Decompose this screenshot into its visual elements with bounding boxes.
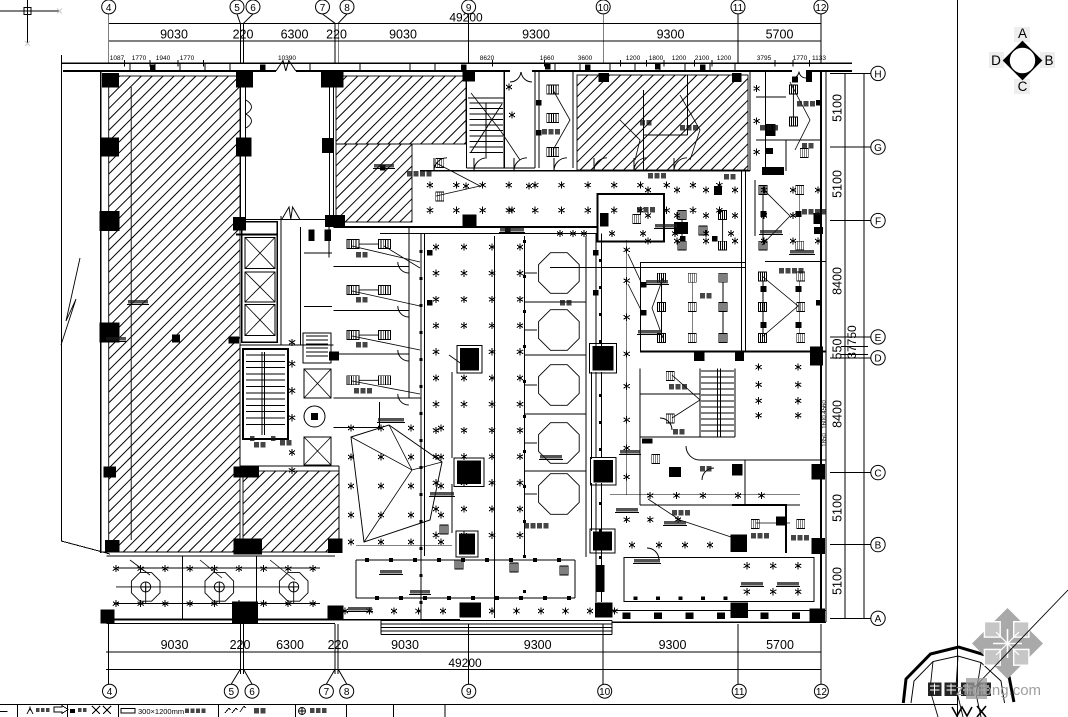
stairwell S2 enclosure (243, 349, 288, 439)
hall mid vertical line x494.5 (494, 236, 496, 618)
small fixture corridor south (652, 455, 660, 464)
lobby wall above elevators (236, 233, 276, 235)
column 15 (99, 323, 119, 343)
leader 8 bottom (338, 669, 347, 684)
column 14 (233, 217, 246, 231)
column 2 (236, 72, 253, 88)
column 5 (321, 72, 344, 88)
octagon connector 3 (525, 384, 538, 386)
column 20 (233, 466, 259, 477)
bar room right wall (741, 171, 743, 352)
legend text socket (310, 708, 315, 713)
column 48 (814, 227, 823, 234)
column 40 (694, 351, 704, 361)
column 1 (102, 73, 119, 88)
wall at grid5-6 left of top room (240, 71, 242, 219)
octagon connector 1 (525, 272, 538, 274)
ballroom interior wall x687 (687, 75, 689, 135)
stars bottom right hall (744, 562, 750, 569)
leader 8 top (338, 14, 347, 23)
svg-text:5100: 5100 (831, 494, 845, 522)
column 36 (811, 538, 825, 554)
top right rooms wall x750 (749, 71, 751, 171)
left exterior wall (100, 71, 102, 553)
star grid right open area (645, 186, 651, 193)
svg-text:9030: 9030 (161, 638, 189, 652)
box LC 1 (309, 230, 315, 241)
svg-text:49200: 49200 (448, 656, 482, 670)
column 11 (325, 215, 345, 227)
svg-text:C: C (1018, 79, 1028, 94)
column 16 (172, 334, 180, 342)
bottom exterior wall right part (612, 621, 826, 623)
svg-text:8400: 8400 (831, 267, 845, 295)
octagon strip divider y355 (525, 354, 587, 356)
svg-text:5700: 5700 (766, 638, 794, 652)
stage zone lines bottom hall (356, 559, 575, 561)
stars right stair rooms (756, 364, 762, 371)
grid bubble E (871, 330, 885, 344)
dark box corridor (714, 186, 722, 195)
column 39 (732, 464, 742, 476)
fixtures corridor room top (547, 85, 559, 94)
black bar near corridor south (642, 439, 653, 444)
hall right corridor walls (595, 234, 597, 603)
stair S3 right treads (701, 370, 734, 372)
left block wall x300 (300, 227, 302, 345)
octagon connector 4 (525, 442, 538, 444)
lobby side wall x329 (328, 222, 330, 258)
irregular light zone polygon (351, 425, 442, 542)
circuit labels (374, 164, 394, 167)
column 25 (232, 602, 258, 624)
column 27 (459, 602, 481, 617)
octagon table 2 (539, 310, 580, 351)
sub-dim ticks top wall (123, 60, 125, 67)
interior wall y267 long line (550, 266, 745, 268)
leader 5 top (237, 14, 240, 23)
ballroom interior wall y135 (643, 134, 687, 136)
column 19 (103, 466, 116, 477)
svg-text:5100: 5100 (831, 170, 845, 198)
compass circle (1009, 47, 1035, 73)
svg-text:7: 7 (320, 3, 326, 14)
svg-text:8: 8 (344, 687, 350, 698)
compass diamond (1004, 42, 1042, 80)
grid bubble 7 top (316, 0, 330, 14)
octagon table 5 (539, 474, 580, 515)
bottom-left room dividers (181, 556, 183, 620)
right rooms vertical connectors (762, 194, 764, 241)
fixture pair connector lines (359, 243, 379, 245)
grid bubble 6 top (246, 0, 260, 14)
svg-text:1940: 1940 (156, 55, 171, 62)
stage line ticks (365, 558, 369, 562)
octagon strip divider y302 (525, 301, 587, 303)
grid bubble 6 bottom (245, 684, 259, 698)
svg-text:9: 9 (466, 3, 472, 14)
legend tiny text 2 (78, 708, 82, 712)
shaft circle dot (311, 413, 318, 420)
octagon table 1 (539, 253, 580, 294)
watermark octagon inner octagon (911, 656, 1005, 703)
svg-text:B: B (875, 541, 882, 552)
stars row above hall (629, 541, 635, 548)
floor octagon 2 (205, 573, 234, 602)
door arcs lower right block (686, 446, 700, 460)
overall dim line 49200 top (109, 22, 821, 24)
legend tiny text 1 (36, 708, 40, 712)
double door top wall right (792, 72, 799, 78)
white room right wall (grid7-8) (333, 71, 335, 227)
column 31 (460, 348, 479, 371)
svg-text:9300: 9300 (657, 28, 685, 42)
elevator 5 (304, 437, 331, 465)
elevator 4 (304, 369, 331, 398)
octagon row connector (116, 586, 294, 588)
svg-text:8400: 8400 (831, 400, 845, 428)
left site boundary line (61, 55, 110, 554)
star column left corridor x292 (289, 339, 295, 346)
octagon strip divider y471 (525, 470, 587, 472)
box lower (765, 148, 773, 154)
white room bottom V door (282, 207, 300, 219)
small wall boxes (461, 65, 467, 71)
svg-text:550: 550 (831, 339, 845, 360)
stair S2 left treads (246, 354, 285, 356)
entry steps band (381, 620, 612, 622)
octagon table 4 (539, 423, 580, 464)
octagon connector 5 (525, 493, 538, 495)
svg-text:6300: 6300 (281, 28, 309, 42)
svg-text:3600: 3600 (578, 55, 593, 62)
top wall window ticks (129, 63, 131, 71)
dots along corridor x540 (523, 240, 526, 243)
fixture boxes small left lobby (436, 159, 444, 168)
svg-text:9030: 9030 (391, 638, 419, 652)
grid bubble 12 top (814, 0, 828, 14)
grid bubble A (871, 611, 885, 625)
star row y233 (557, 230, 563, 237)
bottom right hall outline (624, 558, 814, 602)
grid bubble 11 bottom (732, 684, 746, 698)
svg-text:4560: 4560 (822, 400, 828, 414)
svg-text:9030: 9030 (389, 28, 417, 42)
svg-text:E: E (875, 333, 882, 344)
hall inner edge ticks (634, 597, 638, 601)
overall dim line bottom (106, 668, 821, 670)
ballroom interior wall x643 (642, 90, 644, 171)
inner dim line right (844, 73, 846, 618)
svg-text:1600: 1600 (822, 415, 828, 429)
octagon circle 3 (289, 582, 299, 592)
leader 5 bottom (231, 669, 240, 684)
grid bubble 5 top (230, 0, 244, 14)
line y495 right block (610, 494, 800, 496)
column 23 (328, 539, 342, 553)
column 43 (594, 460, 613, 482)
grid bubble D (871, 351, 885, 365)
stair S2 center rail (264, 352, 266, 435)
corridor room walls x535 (534, 71, 536, 168)
octagon strip divider y414 (525, 413, 587, 415)
left block lower walls x240 (239, 345, 241, 466)
column 47 (813, 213, 821, 224)
room label blobs (542, 129, 547, 135)
watermark chinese text (928, 678, 991, 699)
hatched area below stair top block (336, 76, 466, 144)
column 4 (236, 138, 252, 157)
watermark pinwheel logo (972, 608, 1043, 679)
grid bubble 5 bottom (224, 684, 238, 698)
right exterior wall (820, 71, 822, 622)
top right rooms interior walls (756, 139, 821, 141)
bottom exterior wall left part (107, 619, 335, 621)
watermark glyphs second row (952, 706, 986, 717)
stair room bottom wall (467, 167, 536, 169)
stars bottom center row (342, 607, 348, 614)
grid bubble 10 top (596, 0, 610, 14)
svg-text:8: 8 (344, 3, 350, 14)
stair enclosure walls top (468, 97, 504, 99)
svg-text:1770: 1770 (132, 55, 147, 62)
grid bubble H (871, 66, 885, 80)
svg-text:5100: 5100 (831, 94, 845, 122)
column 38 (669, 467, 681, 477)
UCS crosshair top-left (0, 10, 59, 12)
svg-text:10: 10 (599, 687, 611, 698)
svg-text:5: 5 (229, 687, 235, 698)
svg-text:1133: 1133 (812, 55, 826, 62)
grid bubble 12 bottom (814, 684, 828, 698)
grid bubble 9 top (462, 0, 476, 14)
site boundary break symbol (61, 258, 80, 345)
dark box dressing room (776, 517, 785, 526)
column 22 (233, 539, 262, 555)
left rooms dividers (334, 266, 409, 268)
svg-text:9300: 9300 (524, 638, 552, 652)
svg-text:10: 10 (598, 3, 610, 14)
fixtures mid right room grid (658, 273, 666, 282)
black bar corridor south end (597, 565, 605, 592)
wire polylines (352, 246, 420, 268)
hall left wall (420, 234, 422, 620)
leader 7 bottom (326, 669, 335, 684)
stair S1 rail (485, 103, 487, 157)
watermark pinwheel white rays (993, 629, 1022, 658)
leader 6 bottom (244, 669, 253, 684)
svg-text:F: F (875, 217, 881, 228)
grid bubble G (871, 140, 885, 154)
right rooms block x755 wall (754, 180, 756, 236)
column 7 (598, 73, 609, 82)
bar room left wall (640, 263, 642, 353)
column 26 (328, 606, 344, 620)
svg-text:12: 12 (816, 687, 828, 698)
legend X marks (92, 706, 111, 714)
door arcs left rooms (398, 262, 409, 273)
svg-text:1660: 1660 (540, 55, 555, 62)
grid bubble 11 top (731, 0, 745, 14)
double door top wall mid (510, 72, 521, 82)
stair S1 diagonal (471, 104, 502, 152)
box on top wall right room (792, 77, 798, 83)
elevator 2 (245, 272, 275, 302)
bottom-left function room top wall (107, 555, 335, 557)
lower right partition walls (639, 369, 641, 505)
column 45 (600, 213, 608, 227)
column 33 (457, 460, 481, 484)
thick wall y351 right block (640, 351, 826, 353)
column 24 (101, 610, 115, 624)
fixtures top right rooms (789, 85, 797, 94)
svg-text:D: D (991, 53, 1001, 68)
light zone wires (351, 425, 442, 542)
column 10 (99, 211, 119, 231)
room wall below left rooms (334, 397, 422, 399)
svg-text:2100: 2100 (695, 55, 710, 62)
svg-text:A: A (1018, 26, 1027, 41)
column 46 (674, 222, 688, 234)
octagon circle 1 (141, 582, 151, 592)
hall wall segment x452 (451, 372, 453, 533)
white room bottom wall (241, 218, 334, 220)
watermark octagon inner spokes (930, 656, 981, 717)
legend arrow symbol (54, 706, 68, 714)
svg-text:1850: 1850 (822, 433, 828, 447)
star grid main hall (433, 243, 439, 250)
column 41 (735, 351, 744, 361)
grid bubble 10 bottom (598, 684, 612, 698)
column 34 (593, 531, 612, 550)
column 21 (105, 540, 120, 551)
doors on corridor top rooms (434, 158, 447, 171)
wire line under stars y545 (356, 544, 452, 546)
grid bubble 7 bottom (319, 684, 333, 698)
grid bubble 9 bottom (462, 684, 476, 698)
column 37 (811, 464, 825, 480)
wall y261 right rooms top (765, 261, 826, 263)
dots along hall walls (420, 250, 423, 253)
fixtures lower right rooms (666, 372, 674, 381)
column at left wall of room (765, 124, 775, 136)
double door top wall room (276, 61, 296, 72)
octagon connector 2 (525, 329, 538, 331)
legend switch arrows (225, 706, 246, 713)
hatched area mid left block (243, 471, 339, 552)
column 18 (329, 351, 339, 360)
svg-text:5100: 5100 (831, 567, 845, 595)
svg-text:zhulong.com: zhulong.com (956, 682, 1041, 699)
svg-text:C: C (874, 469, 881, 480)
outline boxes around hall columns (457, 345, 482, 373)
svg-text:37750: 37750 (845, 325, 859, 359)
wire line x626 (626, 240, 628, 495)
svg-text:220: 220 (233, 28, 254, 42)
bottom wall of hatched left strip (101, 551, 339, 553)
stars bottom-left octagon rows (113, 565, 119, 572)
floor octagon 1 (131, 573, 160, 602)
walls around laundry rooms (700, 459, 826, 461)
outer dim line right (863, 73, 865, 618)
svg-text:300×1200mm: 300×1200mm (138, 707, 184, 716)
hall wall segment x591.5 (591, 372, 593, 531)
hatched area left tall strip (109, 76, 240, 552)
svg-text:4: 4 (107, 687, 113, 698)
column 17 (229, 337, 240, 344)
grid bubble 8 top (340, 0, 354, 14)
octagon circle 2 (214, 582, 224, 592)
svg-text:1770: 1770 (180, 55, 195, 62)
column 13 (322, 138, 333, 153)
elevator 3 (245, 304, 275, 335)
svg-text:6300: 6300 (276, 638, 304, 652)
legend socket symbol (299, 708, 306, 715)
svg-text:9030: 9030 (160, 28, 188, 42)
svg-text:9300: 9300 (659, 638, 687, 652)
elevator lobby wall x281 (280, 216, 282, 345)
bold equipment room (598, 194, 665, 242)
fixtures four season room (759, 272, 767, 281)
door squiggle left room (246, 100, 252, 128)
elevator 1 (245, 237, 275, 268)
grid bubble F (871, 213, 885, 227)
svg-text:11: 11 (734, 687, 745, 698)
svg-text:D: D (874, 354, 881, 365)
lobby side wall y306 (304, 306, 332, 308)
floor octagon 3 (279, 573, 308, 602)
svg-text:B: B (1044, 53, 1053, 68)
column 3 (101, 138, 119, 157)
star grid corridor rows (427, 182, 433, 189)
dark furniture top right (762, 167, 784, 175)
elevator shaft enclosure (242, 222, 278, 342)
star column right rooms (624, 246, 630, 253)
legend strip cells (17, 704, 19, 717)
top exterior wall upper line (61, 62, 852, 64)
svg-text:4: 4 (106, 3, 112, 14)
watermark diagonal line (970, 590, 1068, 692)
wall y466 left block (240, 465, 339, 467)
wall y345 left block (240, 344, 334, 346)
leader 6 top (244, 14, 254, 23)
svg-text:H: H (874, 69, 881, 80)
individual dim line bottom (106, 651, 821, 653)
watermark octagon outline thick (903, 647, 1014, 717)
right block partition below y351 - stair walls (699, 369, 701, 437)
svg-text:10390: 10390 (278, 55, 296, 62)
lobby side wall y253 (304, 252, 332, 254)
hatched area top right ballroom (577, 75, 748, 170)
compass north indicator (989, 26, 1055, 94)
grid9 wall upper (466, 71, 468, 168)
column 32 (593, 346, 614, 370)
svg-text:1770: 1770 (793, 55, 808, 62)
svg-text:6: 6 (249, 687, 255, 698)
column 35 (731, 534, 747, 552)
UCS center box (24, 8, 31, 15)
top rooms bottom wall y171 (420, 170, 750, 172)
small room below left rooms (334, 427, 380, 429)
svg-text:1200: 1200 (717, 55, 732, 62)
shaft circle symbol (304, 406, 325, 427)
column 8 (732, 73, 741, 82)
svg-text:1800: 1800 (649, 55, 664, 62)
column 6 (463, 71, 476, 82)
grid bubble 4 top (102, 0, 116, 14)
svg-text:1200: 1200 (672, 55, 687, 62)
stair S2 up-down text (250, 436, 255, 441)
